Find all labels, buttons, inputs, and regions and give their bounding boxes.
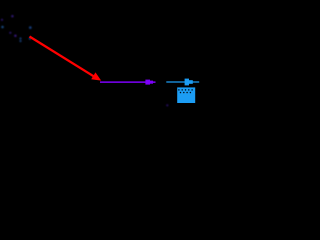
- node star10: [166, 104, 168, 106]
- node star9: [29, 37, 31, 39]
- node star6: [19, 37, 21, 39]
- box holes row2: [180, 92, 191, 94]
- purple arrowhead: [145, 80, 150, 85]
- wire purple arrow shaft: [100, 81, 146, 83]
- node star8: [29, 26, 32, 29]
- wire red arrow shaft: [30, 37, 95, 77]
- red arrowhead: [91, 72, 101, 80]
- node star5: [14, 35, 16, 37]
- node star4: [9, 32, 11, 34]
- box detector: [177, 87, 195, 103]
- blue arrowhead: [185, 79, 189, 86]
- node star7: [19, 40, 21, 42]
- wire blue arrow shaft: [166, 81, 199, 83]
- node star3: [1, 26, 4, 29]
- box holes row1: [178, 89, 193, 91]
- node star1: [11, 15, 13, 17]
- node star2: [1, 19, 3, 21]
